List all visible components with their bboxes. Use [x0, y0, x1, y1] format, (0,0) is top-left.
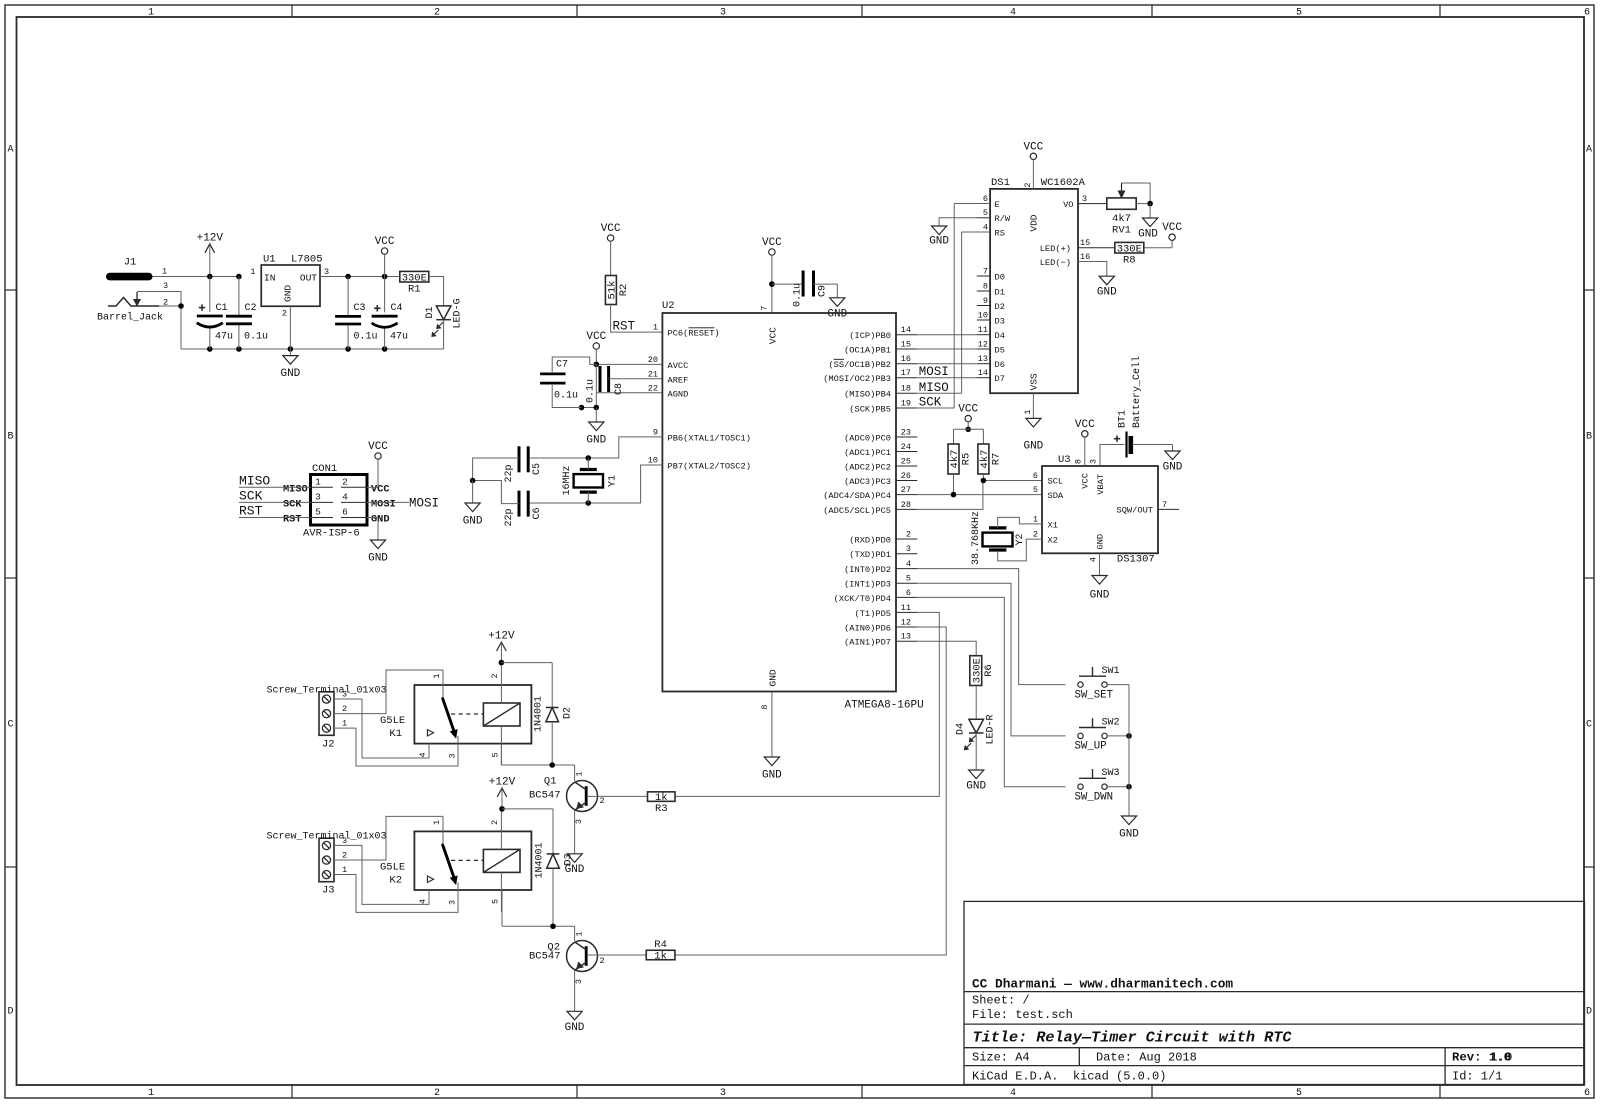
svg-text:5: 5	[983, 208, 988, 218]
power VCC at R8	[1162, 222, 1182, 248]
U2 pin 25 (ADC2)PC2	[844, 456, 917, 472]
DS1 pin 15 LED(+)	[1040, 238, 1114, 254]
svg-text:3: 3	[447, 900, 457, 905]
DS1 pin 8 D1	[977, 281, 1005, 297]
svg-text:(ICP)PB0: (ICP)PB0	[849, 331, 891, 341]
svg-text:R4: R4	[654, 939, 667, 951]
svg-text:DS1307: DS1307	[1117, 554, 1155, 566]
svg-text:R7: R7	[990, 453, 1002, 466]
relay K2 G5LE body	[380, 809, 531, 912]
svg-text:3: 3	[447, 753, 457, 758]
svg-text:(XCK/T0)PD4: (XCK/T0)PD4	[834, 594, 891, 604]
U2 pin 20 AVCC	[648, 355, 689, 371]
svg-text:1: 1	[653, 323, 658, 333]
svg-text:J3: J3	[322, 885, 335, 897]
svg-text:AREF: AREF	[668, 375, 689, 385]
junction Y1 bottom	[586, 500, 592, 506]
potentiometer RV1 4k7	[1107, 183, 1153, 237]
svg-text:Date: Aug 2018: Date: Aug 2018	[1096, 1051, 1197, 1065]
svg-text:MISO: MISO	[239, 474, 270, 489]
svg-text:330E: 330E	[402, 272, 427, 284]
ground at switches	[1119, 816, 1139, 841]
ground rail of power supply	[181, 348, 444, 350]
svg-text:LED-G: LED-G	[453, 298, 464, 328]
svg-text:A: A	[7, 145, 13, 156]
svg-text:+12V: +12V	[489, 777, 516, 789]
svg-text:330E: 330E	[1117, 243, 1142, 255]
svg-text:GND: GND	[371, 514, 390, 526]
svg-text:Battery_Cell: Battery_Cell	[1131, 356, 1143, 428]
U2 pin 24 (ADC1)PC1	[844, 442, 917, 458]
svg-text:C4: C4	[391, 303, 403, 314]
wire U1 GND pin to rail	[289, 306, 291, 349]
svg-text:C: C	[7, 720, 13, 731]
svg-text:GND: GND	[1097, 287, 1117, 299]
DS1 pin 16 LED(-)	[1040, 252, 1090, 268]
svg-text:25: 25	[901, 456, 911, 466]
svg-text:22p: 22p	[504, 464, 515, 482]
U2 pin 12 (AIN0)PD6	[844, 617, 917, 633]
svg-text:3: 3	[720, 8, 726, 19]
connector J3 Screw_Terminal_01x03	[267, 831, 387, 897]
svg-text:SW_UP: SW_UP	[1075, 741, 1107, 753]
crystal Y1 16MHz	[562, 458, 619, 503]
junction C5/C6 ground leg	[470, 478, 476, 484]
IC DS1 WC1602A body	[990, 177, 1086, 415]
wire PD6 to R4	[675, 627, 946, 955]
power VCC at CON1	[367, 441, 388, 487]
svg-text:GND: GND	[283, 285, 294, 302]
svg-text:MOSI: MOSI	[409, 497, 439, 511]
transistor Q2 BC547	[529, 926, 605, 984]
svg-text:6: 6	[1584, 1088, 1590, 1099]
svg-text:16: 16	[1080, 252, 1090, 262]
svg-text:1: 1	[1023, 409, 1033, 414]
ground at D4	[966, 770, 986, 793]
junction K1 coil top	[499, 660, 505, 666]
svg-text:3: 3	[574, 979, 584, 984]
svg-text:GND: GND	[1023, 441, 1043, 453]
svg-text:GND: GND	[1119, 829, 1139, 841]
svg-text:2: 2	[434, 8, 440, 19]
svg-text:SQW/OUT: SQW/OUT	[1117, 505, 1154, 515]
svg-text:5: 5	[1033, 485, 1038, 495]
wire PD5 to R3	[675, 612, 939, 796]
svg-text:GND: GND	[1138, 229, 1158, 241]
resistor R4 1k	[646, 939, 675, 963]
svg-text:1.0: 1.0	[1490, 1051, 1512, 1065]
diode D3 1N4001	[535, 809, 575, 926]
svg-text:24: 24	[901, 442, 911, 452]
U2 pin 4 (INT0)PD2	[844, 559, 917, 575]
svg-text:1: 1	[148, 1088, 154, 1099]
svg-text:D: D	[1586, 1007, 1592, 1018]
DS1 pin 13 D6	[977, 354, 1005, 370]
svg-text:1: 1	[148, 8, 154, 19]
resistor R6 330E	[970, 656, 995, 686]
wire J1 pin2 to ground rail	[159, 306, 181, 349]
svg-text:GND: GND	[565, 1022, 585, 1034]
wire J3 pin2 to K2 pin1	[334, 816, 443, 860]
svg-text:SCK: SCK	[283, 499, 302, 511]
wire +12V junction to D3	[502, 808, 553, 810]
svg-text:16: 16	[901, 354, 911, 364]
svg-text:1: 1	[162, 267, 167, 277]
svg-text:SW_DWN: SW_DWN	[1075, 792, 1113, 804]
svg-text:(INT1)PD3: (INT1)PD3	[844, 580, 891, 590]
svg-text:4: 4	[983, 222, 988, 232]
svg-text:File: test.sch: File: test.sch	[972, 1008, 1073, 1022]
svg-text:12: 12	[901, 617, 911, 627]
svg-text:4: 4	[1010, 8, 1016, 19]
svg-text:(AIN0)PD6: (AIN0)PD6	[844, 623, 891, 633]
svg-text:C2: C2	[245, 303, 257, 314]
svg-text:1: 1	[575, 931, 585, 936]
svg-text:5: 5	[1296, 1088, 1302, 1099]
wire J2 pin2 to K1 pin1	[334, 670, 443, 714]
wire DS1 E to net	[954, 203, 990, 205]
svg-text:C7: C7	[556, 360, 568, 371]
U2 pin 22 AGND	[648, 383, 689, 399]
svg-text:1: 1	[432, 673, 442, 678]
U2 pin 1 PC6(RESET)	[653, 323, 720, 339]
net label RST wire to U2 pin1	[611, 305, 663, 334]
wire J1 pin3	[137, 292, 181, 307]
svg-text:R5: R5	[961, 453, 973, 466]
U2 pin 7 VCC lead	[771, 312, 773, 314]
wire PB2 to LCD D6	[917, 363, 977, 365]
svg-text:D1: D1	[425, 306, 436, 318]
svg-text:Id: 1/1: Id: 1/1	[1452, 1070, 1502, 1084]
DS1 pin 9 D2	[977, 296, 1005, 312]
U2 pin 14 (ICP)PB0	[849, 325, 917, 341]
svg-text:13: 13	[978, 354, 988, 364]
wire SW2 to vertical	[1107, 735, 1129, 737]
svg-text:E: E	[995, 200, 1000, 210]
ground at C9	[827, 298, 847, 321]
svg-text:23: 23	[901, 427, 911, 437]
svg-text:SW1: SW1	[1102, 666, 1120, 677]
svg-text:19: 19	[901, 398, 911, 408]
wire D1 cathode to rail	[443, 320, 445, 349]
U2 pin 28 (ADC5/SCL)PC5	[823, 500, 917, 516]
power VCC at DS1 VDD	[1023, 141, 1043, 189]
junction dots AVCC/AGND net	[579, 405, 585, 411]
svg-text:BT1: BT1	[1118, 410, 1129, 428]
svg-text:VO: VO	[1063, 200, 1073, 210]
svg-text:D2: D2	[563, 707, 574, 719]
svg-text:1: 1	[432, 820, 442, 825]
resistor R8 330E	[1115, 242, 1172, 266]
crystal Y2 38.768KHz	[971, 511, 1042, 565]
svg-text:WC1602A: WC1602A	[1041, 177, 1086, 189]
svg-text:MISO: MISO	[283, 484, 308, 496]
svg-text:VCC: VCC	[1162, 222, 1182, 234]
wire D4 to ground	[975, 733, 977, 770]
wire DS1 RS to net	[962, 231, 991, 233]
svg-text:RV1: RV1	[1112, 225, 1131, 237]
wire J3 pin1 to K2 pin3	[334, 875, 458, 913]
svg-text:4k7: 4k7	[1112, 213, 1131, 225]
svg-text:5: 5	[906, 574, 911, 584]
svg-text:SCK: SCK	[919, 396, 942, 410]
capacitor C9 0.1u	[769, 271, 837, 308]
net label RST at CON1	[239, 504, 311, 519]
svg-text:VBAT: VBAT	[1096, 474, 1106, 495]
capacitor C7 0.1u	[540, 357, 596, 408]
svg-text:CON1: CON1	[312, 463, 337, 475]
svg-text:2: 2	[434, 1088, 440, 1099]
svg-text:7: 7	[983, 266, 988, 276]
wire J2 pin1 to K1 pin3	[334, 728, 458, 766]
svg-text:(ADC2)PC2: (ADC2)PC2	[844, 462, 891, 472]
wire C5 left to ground	[473, 458, 519, 481]
resistor R7 4k7	[978, 429, 1003, 480]
junction R7 on SCL	[981, 478, 987, 484]
ground at U3	[1090, 553, 1110, 601]
vertical net wire LCD E to PB5	[953, 204, 955, 409]
svg-text:BC547: BC547	[529, 951, 561, 963]
svg-text:(ADC5/SCL)PC5: (ADC5/SCL)PC5	[823, 506, 891, 516]
wire K2 pin5 to Q2 collector	[501, 890, 503, 926]
svg-text:4: 4	[342, 491, 348, 502]
ground at DS1 RW	[929, 226, 949, 248]
svg-text:D3: D3	[564, 853, 575, 865]
U2 pin 3 (TXD)PD1	[849, 544, 917, 560]
capacitor C3 0.1u	[335, 277, 377, 350]
capacitor C6 22p	[504, 491, 543, 527]
svg-text:K1: K1	[389, 728, 402, 740]
svg-text:AVR-ISP-6: AVR-ISP-6	[303, 528, 360, 540]
svg-text:14: 14	[978, 368, 988, 378]
svg-text:LED-R: LED-R	[986, 714, 997, 744]
svg-text:1: 1	[315, 476, 321, 487]
svg-text:GND: GND	[929, 236, 949, 248]
svg-text:GND: GND	[966, 781, 986, 793]
svg-text:330E: 330E	[971, 658, 983, 683]
U2 pin 15 (OC1A)PB1	[844, 339, 917, 355]
net label MOSI at CON1	[367, 497, 439, 511]
power +12V at K2	[489, 777, 516, 809]
svg-text:DS1: DS1	[991, 177, 1010, 189]
svg-text:GND: GND	[368, 553, 388, 565]
U2 pin 6 (XCK/T0)PD4	[834, 588, 918, 604]
wire J3 pin3 to K2 pin4	[334, 845, 429, 904]
svg-text:VCC: VCC	[586, 331, 606, 343]
ground at CON1	[367, 518, 388, 565]
svg-text:VCC: VCC	[958, 404, 978, 416]
wire PC4 SDA to U3	[917, 494, 1042, 496]
svg-text:Y2: Y2	[1015, 533, 1026, 545]
wire PD4 to SW3	[917, 597, 1065, 786]
svg-text:VDD: VDD	[1029, 214, 1040, 231]
U2 pin 19 (SCK)PB5	[849, 398, 917, 414]
svg-text:D0: D0	[995, 272, 1005, 282]
svg-text:10: 10	[978, 310, 988, 320]
U2 pin 5 (INT1)PD3	[844, 574, 917, 590]
svg-text:2: 2	[600, 956, 605, 966]
wire DS1 RW to ground	[939, 218, 990, 226]
svg-text:VCC: VCC	[601, 223, 621, 235]
svg-text:12: 12	[978, 339, 988, 349]
svg-text:MOSI: MOSI	[919, 365, 949, 379]
svg-text:4k7: 4k7	[949, 450, 961, 469]
svg-text:R1: R1	[408, 284, 421, 296]
svg-text:D4: D4	[995, 331, 1005, 341]
power flag VCC main	[375, 236, 395, 277]
capacitor C8 0.1u	[586, 364, 663, 407]
svg-text:(ADC3)PC3: (ADC3)PC3	[844, 477, 891, 487]
junction D3 bottom	[550, 923, 556, 929]
DS1 pin 7 D0	[977, 266, 1005, 282]
svg-text:1N4001: 1N4001	[535, 842, 546, 878]
U2 pin 11 (T1)PD5	[855, 603, 918, 619]
U2 pin 2 (RXD)PD0	[849, 529, 917, 545]
svg-text:SCK: SCK	[239, 489, 263, 504]
svg-text:U3: U3	[1058, 454, 1071, 466]
U2 pin 26 (ADC3)PC3	[844, 471, 917, 487]
wire +12V junction to D2	[501, 662, 552, 664]
svg-text:3: 3	[315, 491, 321, 502]
svg-text:ATMEGA8-16PU: ATMEGA8-16PU	[845, 700, 924, 712]
svg-text:B: B	[1586, 432, 1592, 443]
svg-text:R3: R3	[655, 803, 668, 815]
svg-text:(SCK)PB5: (SCK)PB5	[849, 404, 891, 414]
wire J2 pin3 to K1 pin4	[334, 699, 429, 758]
svg-text:SW_SET: SW_SET	[1075, 689, 1114, 701]
wire Q2 emitter to ground	[574, 971, 576, 1012]
power VCC at R5 R7	[954, 404, 984, 433]
svg-text:11: 11	[978, 325, 988, 335]
svg-text:D3: D3	[995, 316, 1005, 326]
svg-text:R6: R6	[983, 664, 995, 677]
svg-text:4: 4	[906, 559, 911, 569]
junction +12V on input wire	[207, 274, 213, 280]
capacitor C1 47u	[197, 277, 233, 350]
wire PB3 to LCD D7	[917, 377, 977, 379]
svg-text:SW3: SW3	[1102, 768, 1120, 779]
connector CON1 AVR-ISP-6	[283, 463, 396, 540]
svg-text:B: B	[7, 432, 13, 443]
svg-text:6: 6	[1033, 471, 1038, 481]
wire R1 to D1	[429, 277, 444, 306]
svg-text:3: 3	[906, 544, 911, 554]
battery BT1 Battery_Cell	[1100, 356, 1173, 466]
svg-text:X1: X1	[1048, 520, 1058, 530]
switch SW1 SW_SET	[1075, 666, 1120, 701]
svg-text:3: 3	[720, 1088, 726, 1099]
svg-text:PC6(RESET): PC6(RESET)	[668, 329, 720, 339]
svg-text:10: 10	[648, 456, 658, 466]
svg-text:2: 2	[490, 673, 500, 678]
U2 pin 27 (ADC4/SDA)PC4	[823, 485, 917, 501]
U3 pin 7 SQW/OUT	[1158, 500, 1179, 510]
capacitor C2 0.1u	[226, 274, 268, 349]
svg-text:(MISO)PB4: (MISO)PB4	[844, 390, 891, 400]
wire PD7 to R6	[917, 641, 976, 656]
svg-text:+12V: +12V	[197, 232, 224, 244]
junction R5 on SDA	[951, 492, 957, 498]
DS1 pin 10 D3	[977, 310, 1005, 326]
svg-text:6: 6	[906, 588, 911, 598]
U2 pin 8 GND lead and ground	[762, 692, 782, 782]
svg-text:47u: 47u	[215, 332, 233, 343]
DS1 pin 6 E	[977, 194, 1000, 210]
switch SW3 SW_DWN	[1075, 768, 1120, 803]
wire U2 pin9 to Y1	[530, 437, 662, 458]
U2 pin 16 (SS/OC1B)PB2	[828, 354, 917, 370]
svg-text:(MOSI/OC2)PB3: (MOSI/OC2)PB3	[823, 374, 891, 384]
svg-text:D1: D1	[995, 287, 1005, 297]
svg-text:C3: C3	[354, 303, 366, 314]
wire PC5 SCL to U3	[917, 481, 1042, 510]
svg-text:D7: D7	[995, 374, 1005, 384]
IC U3 DS1307 body	[1042, 454, 1158, 566]
svg-text:26: 26	[901, 471, 911, 481]
svg-text:1k: 1k	[654, 951, 667, 963]
svg-text:17: 17	[901, 368, 911, 378]
svg-text:GND: GND	[762, 770, 782, 782]
resistor R3 1k	[648, 792, 676, 815]
svg-text:VCC: VCC	[375, 236, 395, 248]
svg-text:1: 1	[575, 771, 585, 776]
svg-text:SDA: SDA	[1048, 491, 1064, 501]
wire U2 pin10 to Y1	[530, 465, 663, 503]
svg-text:GND: GND	[768, 669, 779, 686]
U2 pin 10 PB7	[648, 456, 751, 472]
svg-text:LED(−): LED(−)	[1040, 258, 1071, 268]
svg-text:3: 3	[342, 836, 347, 846]
svg-text:GND: GND	[280, 368, 300, 380]
diode D2 1N4001	[534, 663, 574, 765]
ground at Q1	[565, 854, 585, 876]
svg-text:PB7(XTAL2/TOSC2): PB7(XTAL2/TOSC2)	[668, 462, 751, 472]
svg-text:Sheet: /: Sheet: /	[972, 994, 1030, 1008]
U2 pin 17 (MOSI/OC2)PB3	[823, 368, 917, 384]
power VCC at U3	[1075, 419, 1095, 466]
svg-text:K2: K2	[389, 874, 402, 886]
svg-text:D: D	[7, 1007, 13, 1018]
LED D4 LED-R	[956, 714, 997, 749]
DS1 pin 3 VO	[1063, 194, 1107, 210]
svg-text:Barrel_Jack: Barrel_Jack	[97, 312, 163, 324]
svg-text:J1: J1	[124, 257, 137, 269]
svg-text:GND: GND	[1096, 534, 1106, 550]
svg-text:RST: RST	[283, 514, 302, 526]
ground at BT1	[1163, 445, 1183, 474]
svg-text:SW2: SW2	[1102, 717, 1120, 728]
svg-text:U1: U1	[263, 254, 276, 266]
svg-text:8: 8	[1074, 459, 1084, 464]
svg-text:+12V: +12V	[488, 631, 515, 643]
svg-text:7: 7	[1162, 500, 1167, 510]
svg-text:6: 6	[342, 507, 348, 518]
svg-text:LED(+): LED(+)	[1040, 244, 1071, 254]
svg-text:11: 11	[901, 603, 911, 613]
svg-text:(T1)PD5: (T1)PD5	[855, 609, 892, 619]
svg-text:7: 7	[760, 305, 770, 310]
wire SW3 to vertical	[1107, 786, 1129, 788]
svg-text:D5: D5	[995, 345, 1005, 355]
svg-text:RST: RST	[613, 319, 636, 333]
svg-text:5: 5	[315, 507, 321, 518]
power flag +12V	[197, 232, 224, 276]
wire DS1 LED- to ground	[1078, 262, 1117, 299]
svg-text:CC Dharmani — www.dharmanitech: CC Dharmani — www.dharmanitech.com	[972, 977, 1233, 992]
power +12V at K1	[488, 631, 515, 663]
connector J1 Barrel_Jack	[97, 257, 168, 324]
resistor R1 330E	[400, 271, 429, 295]
